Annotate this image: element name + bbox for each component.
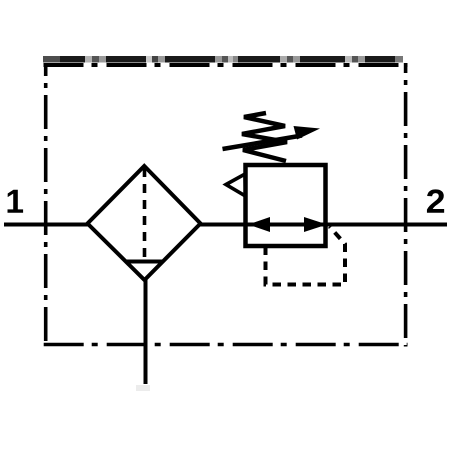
regulator R1: relief triangle: [226, 174, 246, 196]
filter F1: dashed element line: [143, 168, 147, 260]
regulator R1: flow arrow pointing right: [304, 217, 327, 232]
enclosure bottom border (dash-dot line): [44, 343, 408, 347]
enclosure top border (dash-dot line): [44, 63, 408, 67]
regulator R1: pilot control dashed line: [266, 227, 346, 285]
regulator R1: flow arrow pointing left: [248, 217, 270, 232]
drain end smudge: [136, 385, 150, 391]
wire: main line middle and right segment (filter to port 2): [199, 223, 447, 227]
regulator R1: adjustability arrow shaft: [223, 136, 303, 150]
port label 1: [8, 190, 24, 213]
filter F1: diamond body: [88, 166, 201, 280]
enclosure right border (dash-dot line): [404, 63, 408, 347]
enclosure top border (blurred upscaled band): [43, 56, 403, 63]
regulator R1: valve body square: [246, 165, 326, 246]
enclosure left border (dash-dot line): [44, 63, 48, 347]
wire: drain line: [144, 278, 148, 384]
wire: main line left segment (port 1 to filter): [4, 223, 89, 227]
filter F1: water separator chord: [125, 260, 164, 264]
port label 2: [427, 189, 444, 212]
regulator R1: adjustment spring: [242, 113, 287, 161]
regulator R1: adjustability arrow head: [294, 126, 321, 140]
